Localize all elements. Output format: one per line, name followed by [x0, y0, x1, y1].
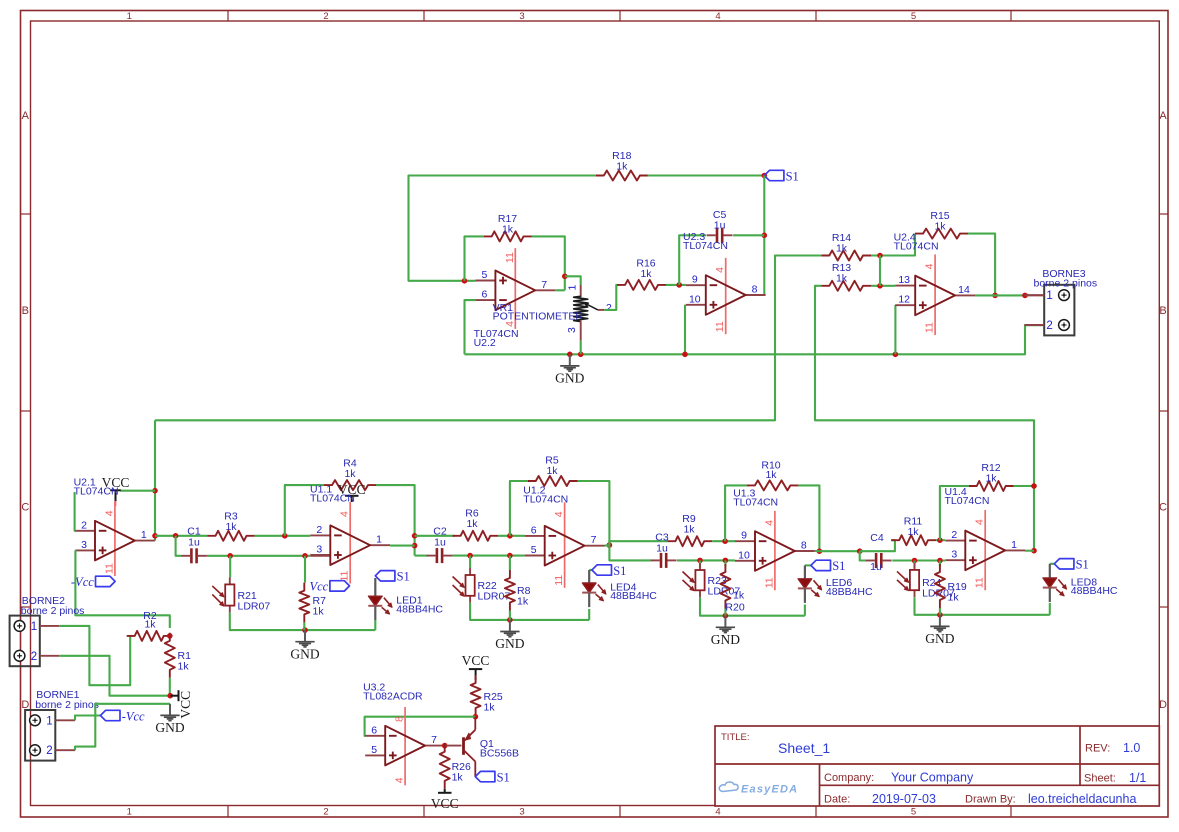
resistor R1	[165, 633, 175, 678]
svg-text:4: 4	[715, 11, 720, 22]
svg-text:1k: 1k	[836, 273, 848, 285]
ground BORNE1	[169, 704, 171, 715]
resistor R7	[304, 556, 306, 583]
junction wire B / R12	[1031, 483, 1037, 489]
svg-text:LDR07: LDR07	[238, 601, 271, 613]
resistor R5	[528, 476, 578, 486]
svg-text:4: 4	[394, 777, 406, 783]
wire U2.1 pin2 dangling up	[74, 492, 77, 531]
wire R3 to U1.1 pin2	[255, 535, 311, 537]
junction R22 branch	[467, 553, 473, 559]
svg-text:1k: 1k	[344, 468, 356, 480]
svg-text:A: A	[1159, 110, 1167, 122]
wire C2 right to pin5	[453, 555, 525, 557]
svg-text:2: 2	[323, 807, 328, 818]
potentiometer VR1	[580, 285, 582, 297]
junction stage5 entry	[857, 548, 863, 554]
junction R8 branch	[507, 553, 513, 559]
wire R17 loop left	[465, 236, 484, 280]
svg-text:VCC: VCC	[178, 691, 193, 719]
wire to R9	[609, 541, 667, 545]
op-amp U1.3 TL074CN	[774, 511, 776, 590]
svg-text:VCC: VCC	[462, 653, 490, 668]
svg-text:1k: 1k	[683, 524, 695, 536]
resistor R6	[453, 531, 499, 541]
junction R19 branch / pin3	[937, 558, 943, 564]
svg-text:6: 6	[481, 289, 487, 301]
resistor R18	[596, 171, 648, 181]
LDR R24	[913, 561, 915, 569]
junction U2.4 pin12	[893, 352, 899, 358]
junction R23 branch	[697, 558, 703, 564]
svg-text:Sheet:: Sheet:	[1084, 773, 1116, 785]
junction R1 bottom VCC	[167, 693, 173, 699]
junction U2.2 pin5 node	[462, 278, 468, 284]
junction rail GND stage3	[507, 617, 513, 623]
junction U2.3 pin10	[682, 352, 688, 358]
wire R6 to U1.2 pin6	[498, 535, 524, 537]
svg-text:C4: C4	[870, 532, 884, 544]
svg-text:4: 4	[103, 510, 115, 516]
svg-text:leo.treicheldacunha: leo.treicheldacunha	[1028, 792, 1136, 806]
wire U1.4 output	[1025, 550, 1034, 552]
op-amp U1.1 TL074CN	[349, 502, 351, 584]
svg-text:B: B	[22, 305, 29, 317]
wire U3.2 feedback to pin6	[365, 717, 476, 736]
wire U1.3 out to stage5	[819, 550, 859, 552]
wire stage4 ground rail	[700, 597, 805, 615]
svg-text:3: 3	[951, 549, 957, 561]
wire node to VR1 pin1	[565, 276, 581, 285]
net flag S1 at Q1	[475, 771, 495, 781]
wire R12 right to U1.4 output	[1014, 486, 1034, 551]
svg-text:S1: S1	[497, 770, 510, 784]
power VCC at U2.1	[110, 489, 121, 491]
photoresistor R22 LDR07	[469, 568, 471, 575]
svg-text:9: 9	[741, 530, 747, 542]
resistor R11	[891, 535, 936, 545]
photoresistor R24 LDR07	[914, 563, 916, 570]
wire R17 loop right to U2.2 output	[532, 236, 565, 290]
junction U1.1 output	[412, 543, 418, 549]
svg-text:S1: S1	[786, 169, 799, 183]
junction C1 branch	[173, 533, 179, 539]
resistor R20	[720, 564, 730, 609]
ground stage5	[939, 615, 941, 626]
svg-text:1k: 1k	[948, 592, 960, 604]
wire C5 right to S1 vertical	[733, 234, 764, 236]
svg-text:TL074CN: TL074CN	[894, 241, 939, 253]
wire LED6 to rail	[804, 605, 806, 616]
ground stage3	[509, 620, 511, 631]
wire VR1 pin3 to rail	[580, 341, 582, 355]
svg-text:GND: GND	[155, 720, 184, 735]
svg-text:S1: S1	[1076, 558, 1089, 572]
svg-text:1k: 1k	[934, 221, 946, 233]
junction rail GND	[302, 627, 308, 633]
wire VR1 wiper to R16	[598, 309, 604, 311]
wire stage2 ground rail	[230, 613, 376, 631]
svg-text:5: 5	[371, 744, 377, 756]
capacitor C2	[436, 548, 439, 563]
svg-text:1: 1	[1046, 290, 1052, 302]
svg-text:13: 13	[898, 274, 910, 286]
wire U1.1 output	[390, 545, 415, 547]
svg-text:7: 7	[591, 534, 597, 546]
svg-text:7: 7	[431, 734, 437, 746]
wire A drop to U2.1 output node	[154, 420, 156, 541]
svg-text:11: 11	[763, 577, 775, 588]
svg-text:1k: 1k	[178, 661, 190, 673]
svg-text:11: 11	[339, 570, 351, 581]
svg-text:GND: GND	[290, 646, 319, 661]
svg-text:1/1: 1/1	[1129, 771, 1146, 785]
svg-text:7: 7	[541, 279, 547, 291]
svg-text:GND: GND	[555, 371, 584, 386]
wire R5 right to U1.2 output	[578, 481, 610, 545]
svg-text:2: 2	[951, 529, 957, 541]
svg-text:D: D	[21, 699, 29, 711]
wire BORNE2 pin1 to R2	[60, 626, 130, 685]
wire C4 right to pin3	[892, 559, 945, 561]
LED LED8 48BB4HC	[1050, 563, 1055, 565]
net flag Vcc	[330, 581, 350, 591]
wire BORNE1 pin2 to GND	[75, 704, 170, 750]
connector BORNE3 borne 2 pinos	[1044, 285, 1074, 336]
wire to R6	[415, 535, 455, 537]
svg-text:Drawn By:: Drawn By:	[965, 794, 1016, 806]
title block	[715, 726, 1159, 806]
svg-text:1k: 1k	[502, 224, 514, 236]
wire stage5 ground rail	[915, 597, 1050, 615]
junction C5 right	[762, 233, 768, 239]
junction U1.2 output	[607, 542, 613, 548]
svg-text:14: 14	[958, 284, 970, 296]
resistor R3	[208, 531, 255, 541]
long interconnect wire B (R13 branch)	[815, 286, 1034, 486]
wire down to C4	[860, 551, 867, 560]
resistor R17	[484, 231, 532, 241]
frame column ticks and numbers	[227, 11, 229, 22]
svg-text:2: 2	[81, 519, 87, 531]
svg-text:2019-07-03: 2019-07-03	[872, 792, 936, 806]
svg-text:2: 2	[606, 302, 612, 314]
junction R20 branch	[723, 558, 729, 564]
svg-text:1u: 1u	[870, 561, 882, 573]
wire R15 right to U2.4 output	[968, 234, 995, 296]
junction pin13 node	[877, 283, 883, 289]
svg-text:3: 3	[519, 807, 524, 818]
resistor R9	[667, 536, 712, 546]
svg-text:borne 2 pinos: borne 2 pinos	[21, 605, 85, 617]
svg-text:6: 6	[531, 524, 537, 536]
svg-text:REV:: REV:	[1085, 743, 1110, 755]
op-amp U1.4 TL074CN	[984, 510, 986, 590]
svg-text:1u: 1u	[656, 543, 668, 555]
wire C3 right to pin10	[677, 559, 735, 561]
svg-text:1k: 1k	[836, 243, 848, 255]
svg-text:1k: 1k	[907, 526, 919, 538]
resistor R2	[127, 631, 172, 641]
op-amp U2.2 TL074CN	[514, 248, 516, 329]
frame row ticks and letters	[21, 213, 31, 215]
wire U1.3 output	[815, 550, 820, 552]
wire C1 right to U1.1 pin3 line	[207, 555, 310, 557]
junction S1/R18 node	[762, 173, 768, 179]
svg-text:EasyEDA: EasyEDA	[741, 784, 798, 796]
svg-text:A: A	[22, 110, 30, 122]
junction R14/R13 right	[877, 253, 883, 259]
power VCC at R1	[178, 690, 180, 701]
svg-text:U2.2: U2.2	[474, 337, 496, 349]
LED LED4 48BB4HC	[589, 569, 592, 571]
power VCC (inverted) at R26	[444, 789, 446, 793]
svg-text:1k: 1k	[144, 619, 156, 631]
svg-text:1u: 1u	[188, 537, 200, 549]
svg-text:TL082ACDR: TL082ACDR	[363, 691, 423, 703]
photoresistor R21 LDR07	[229, 577, 231, 584]
junction U3.2 output / R26	[442, 743, 448, 749]
svg-text:1k: 1k	[225, 521, 237, 533]
svg-text:6: 6	[371, 724, 377, 736]
photoresistor R23 LDR07	[699, 563, 701, 570]
wire BORNE1 pin1 to -Vcc flag	[75, 716, 100, 721]
resistor R13	[821, 281, 871, 291]
svg-text:10: 10	[738, 549, 750, 561]
wire to C2	[415, 555, 428, 557]
svg-text:borne 2 pinos: borne 2 pinos	[1034, 278, 1098, 290]
svg-text:S1: S1	[397, 570, 410, 584]
svg-text:1k: 1k	[452, 772, 464, 784]
wire R9 to pin9	[712, 540, 735, 542]
EasyEDA logo	[719, 782, 738, 792]
R10 feedback loop	[725, 485, 747, 541]
svg-text:C: C	[21, 502, 29, 514]
wire R13 to U2.4 pin13	[871, 285, 895, 287]
svg-text:2: 2	[316, 524, 322, 536]
bottom rail of top section	[465, 325, 1045, 354]
connector BORNE1	[25, 710, 55, 761]
svg-text:1k: 1k	[985, 473, 997, 485]
resistor R25	[471, 675, 481, 716]
svg-text:3: 3	[81, 539, 87, 551]
wire U2.4 pin12 to rail	[894, 305, 896, 354]
svg-text:VCC: VCC	[431, 796, 459, 811]
ground stage4	[724, 616, 726, 627]
svg-text:4: 4	[714, 267, 726, 273]
wire U1.2 output	[605, 544, 610, 547]
svg-text:S1: S1	[613, 564, 626, 578]
svg-text:4: 4	[974, 519, 986, 525]
junction U2.4 output	[992, 293, 998, 299]
svg-text:TL074CN: TL074CN	[74, 486, 119, 498]
svg-text:BC556B: BC556B	[480, 748, 519, 760]
R5 feedback loop	[510, 481, 528, 536]
svg-text:1: 1	[127, 11, 132, 22]
op-amp U2.1 TL074CN	[114, 501, 116, 576]
resistor R15	[915, 229, 968, 239]
svg-text:1: 1	[127, 807, 132, 818]
wire U2.1 pin3 to R1/R2 node	[75, 550, 170, 628]
svg-text:1k: 1k	[640, 268, 652, 280]
resistor R10	[747, 480, 799, 490]
svg-text:1k: 1k	[313, 606, 325, 618]
junction VR1 pin3	[578, 352, 584, 358]
junction R24 branch	[912, 558, 918, 564]
svg-text:12: 12	[898, 294, 910, 306]
wire: U2.2 pin6 to bottom rail	[465, 300, 476, 354]
wire U2.2 output to node	[555, 289, 565, 291]
svg-text:5: 5	[531, 544, 537, 556]
capacitor C3	[660, 553, 663, 568]
wire: R18 top loop left segment	[409, 176, 596, 281]
resistor R19	[935, 564, 945, 608]
resistor R12	[969, 481, 1014, 491]
junction R12 loop / pin2	[937, 537, 943, 543]
svg-text:Vcc: Vcc	[309, 580, 328, 594]
LED LED6 48BB4HC	[805, 564, 811, 566]
op-amp U3.2 TL082ACDR	[404, 707, 406, 785]
svg-text:S1: S1	[832, 559, 845, 573]
junction U2.2 output node	[562, 274, 568, 280]
op-amp U2.3 TL074CN	[725, 258, 727, 334]
svg-text:8: 8	[394, 716, 406, 722]
junction R7 branch	[302, 553, 308, 559]
net flag S1 top	[764, 170, 784, 180]
junction VCC tap	[152, 488, 158, 494]
wire R4 feedback loop	[285, 485, 324, 536]
wire R4 right to output vertical	[376, 485, 415, 555]
wire LED4 to rail	[588, 609, 590, 620]
svg-text:11: 11	[974, 577, 986, 588]
svg-text:11: 11	[553, 575, 565, 586]
svg-text:1k: 1k	[484, 702, 496, 714]
svg-text:D: D	[1159, 699, 1167, 711]
wire R16 to U2.3 pin9	[666, 284, 686, 286]
junction R21 branch	[227, 553, 233, 559]
svg-text:1.0: 1.0	[1123, 741, 1140, 755]
svg-text:1k: 1k	[546, 465, 558, 477]
capacitor C1	[190, 548, 193, 563]
op-amp U2.4 TL074CN	[934, 254, 936, 335]
svg-text:3: 3	[519, 11, 524, 22]
svg-text:11: 11	[504, 252, 516, 263]
svg-text:10: 10	[689, 293, 701, 305]
wire LED8 to rail	[1049, 603, 1051, 615]
svg-text:1: 1	[141, 529, 147, 541]
LDR R21	[229, 556, 231, 578]
junction C5 left / pin9	[676, 282, 682, 288]
net flag -Vcc at U2.1	[96, 576, 116, 586]
svg-text:5: 5	[911, 807, 916, 818]
svg-text:1: 1	[31, 621, 37, 633]
svg-text:Your Company: Your Company	[891, 770, 974, 784]
R12 feedback loop	[940, 486, 969, 540]
wire C5 left branch	[679, 235, 706, 285]
wire R11 to pin2	[936, 539, 945, 541]
resistor R8	[505, 570, 515, 611]
resistor R4	[324, 480, 376, 490]
wire U2.1 output line	[155, 535, 208, 537]
svg-text:3: 3	[566, 327, 578, 333]
svg-text:GND: GND	[711, 632, 740, 647]
junction upper line	[412, 533, 418, 539]
svg-text:1u: 1u	[714, 220, 726, 232]
junction BORNE3 pin1	[1022, 293, 1028, 299]
svg-text:Sheet_1: Sheet_1	[778, 740, 830, 756]
resistor R7	[299, 583, 309, 623]
transistor Q1 BC556B	[462, 737, 465, 755]
svg-text:11: 11	[714, 321, 726, 332]
svg-text:Company:: Company:	[824, 772, 874, 784]
resistor R19	[939, 561, 941, 567]
op-amp U1.2 TL074CN	[564, 502, 566, 588]
svg-text:borne 2 pinos: borne 2 pinos	[35, 699, 99, 711]
svg-text:48BB4HC: 48BB4HC	[1071, 585, 1118, 597]
wire stage3 ground rail	[470, 603, 589, 620]
svg-text:48BB4HC: 48BB4HC	[396, 603, 443, 615]
svg-text:2: 2	[31, 651, 37, 663]
svg-text:1k: 1k	[466, 518, 478, 530]
LDR R22	[469, 556, 471, 568]
capacitor C5	[716, 228, 719, 243]
LDR R23	[699, 560, 701, 568]
wire down to C1	[176, 536, 182, 556]
svg-text:B: B	[1159, 305, 1166, 317]
wire U2.4 output to BORNE3 pin1	[975, 294, 1025, 296]
junction GND rail	[567, 352, 573, 358]
wire S1 node down to U2.3 output	[763, 176, 765, 296]
wire jog up to R11	[860, 540, 895, 551]
wire R14-R13 tie	[879, 256, 881, 286]
svg-text:TL074CN: TL074CN	[683, 240, 728, 252]
junction R5 loop / pin6	[507, 533, 513, 539]
wire U2.3 pin10 down to rail	[684, 305, 686, 355]
ground stage2	[304, 630, 306, 641]
LED LED1 48BB4HC	[375, 571, 395, 581]
wire LED1 to rail	[374, 620, 376, 630]
svg-text:GND: GND	[495, 636, 524, 651]
svg-text:2: 2	[1046, 320, 1052, 332]
svg-text:5: 5	[481, 269, 487, 281]
svg-text:4: 4	[763, 520, 775, 526]
svg-text:11: 11	[103, 563, 115, 574]
svg-text:4: 4	[339, 511, 351, 517]
svg-text:R20: R20	[725, 602, 744, 614]
resistor R20	[724, 560, 726, 566]
junction U1.3 output	[817, 548, 823, 554]
wire R1 to VCC	[169, 678, 171, 696]
junction U1.4 output	[1031, 548, 1037, 554]
wire R14 right / R15 left corner	[871, 234, 915, 256]
svg-text:1: 1	[1011, 539, 1017, 551]
svg-text:1k: 1k	[517, 596, 529, 608]
wire R10 right to U1.3 output	[798, 485, 819, 551]
svg-text:TL074CN: TL074CN	[945, 495, 990, 507]
svg-text:1: 1	[567, 285, 579, 291]
resistor R26	[440, 744, 450, 789]
capacitor C4	[875, 553, 878, 568]
junction rail GND stage4	[723, 613, 729, 619]
svg-text:Date:: Date:	[824, 794, 850, 806]
svg-text:TL074CN: TL074CN	[733, 497, 778, 509]
junction R4 loop	[282, 533, 288, 539]
resistor R14	[821, 251, 871, 261]
svg-text:2: 2	[46, 745, 52, 757]
svg-text:11: 11	[924, 322, 936, 333]
svg-text:1: 1	[376, 534, 382, 546]
svg-text:1k: 1k	[616, 161, 628, 173]
